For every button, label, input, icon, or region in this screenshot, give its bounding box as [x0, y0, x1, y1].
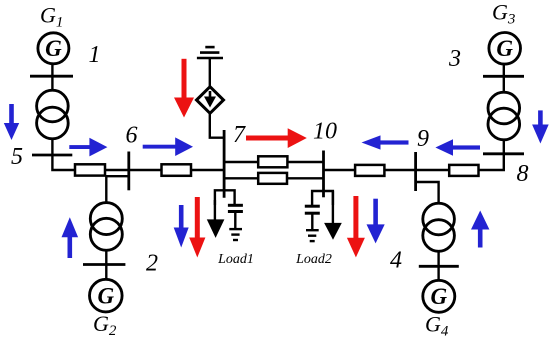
label 10 — [313, 119, 337, 145]
capacitor C1 (Load1 shunt) — [228, 205, 243, 228]
svg-text:G: G — [97, 283, 114, 308]
svg-text:3: 3 — [448, 46, 461, 72]
source U1 (diamond with down arrow) — [197, 87, 224, 114]
label 7 — [233, 122, 246, 148]
node 2 bus bar — [83, 263, 125, 266]
wire: ground to source diamond — [209, 58, 211, 88]
line box 7-10 lower — [258, 173, 287, 184]
label 9 — [417, 126, 429, 152]
svg-text:7: 7 — [233, 122, 246, 148]
line box 6-7 — [162, 164, 192, 176]
node 9 bus bar — [414, 152, 417, 191]
wire: bus6 jog to transformer T2 — [106, 176, 129, 203]
label 5 — [11, 144, 23, 170]
wire: upper branch bus7 to bus10 — [224, 161, 324, 163]
transformer T3 — [488, 92, 520, 140]
label G3 — [492, 0, 515, 28]
node 6 bus bar — [127, 152, 130, 191]
svg-text:5: 5 — [11, 144, 23, 170]
label 1 — [89, 42, 101, 68]
svg-text:G: G — [45, 36, 62, 61]
ground (below C1) — [229, 229, 242, 240]
label 6 — [126, 123, 138, 149]
svg-text:8: 8 — [517, 161, 529, 187]
node 3 bus bar — [483, 75, 524, 78]
flow arrow: blue down at Load1 — [174, 205, 189, 248]
label Load1 — [217, 252, 254, 267]
flow arrow: blue right 5 to 6 — [69, 138, 107, 157]
flow arrow: red right 7 to 10 — [246, 128, 307, 148]
node 7 bus bar — [223, 130, 226, 198]
svg-text:G: G — [430, 284, 447, 309]
line box 10-9 — [355, 165, 384, 176]
transformer T4 — [423, 203, 455, 251]
flow arrow: blue up at T4 — [471, 211, 489, 248]
node 1 bus bar — [30, 75, 73, 78]
wire: diamond jog to bus7 — [210, 113, 224, 138]
wire: T4 to G4 — [437, 251, 439, 281]
svg-text:6: 6 — [126, 123, 138, 149]
flow arrow: blue down at Load2 — [367, 199, 385, 244]
generator G1 — [38, 33, 69, 64]
svg-text:2: 2 — [146, 251, 158, 277]
ground (below C2) — [306, 230, 319, 241]
label 3 — [448, 46, 461, 72]
svg-text:Load1: Load1 — [217, 252, 254, 267]
wire: bus9 jog to transformer T4 — [416, 182, 439, 203]
flow arrow: blue down at bus 8 — [532, 110, 549, 143]
wire: lower branch bus7 to bus10 — [224, 177, 324, 179]
capacitor C2 (Load2 shunt) — [305, 206, 320, 229]
label G2 — [93, 311, 117, 339]
flow arrow: red down at source — [174, 59, 194, 118]
wire: T2 to G2 — [105, 250, 107, 279]
flow arrow: blue left 9 from 8 — [435, 139, 480, 155]
line box 9-8 — [449, 165, 478, 176]
line box 5-6 — [75, 164, 105, 175]
flow arrow: blue right 6 to 7 — [143, 137, 193, 156]
wire: G3 to transformer T3 — [503, 64, 505, 93]
label G4 — [425, 312, 449, 340]
node 10 bus bar — [322, 151, 325, 198]
label 2 — [146, 251, 158, 277]
node 8 bus bar — [483, 152, 524, 155]
load Load1 connector — [215, 190, 235, 205]
load Load1 arrow — [207, 200, 225, 238]
svg-text:G: G — [496, 36, 513, 61]
generator G2 — [90, 279, 123, 312]
line box 7-10 upper — [258, 156, 287, 167]
node 4 bus bar — [419, 265, 459, 268]
load Load2 arrow — [324, 191, 342, 240]
svg-text:9: 9 — [417, 126, 429, 152]
svg-text:4: 4 — [390, 248, 402, 274]
wire: main line bus5 to bus7 — [52, 139, 224, 170]
flow arrow: blue left 10 from 9 — [362, 135, 409, 149]
wire: main line bus10 to bus8 riser — [324, 141, 504, 171]
flow arrow: blue up at T2 — [62, 217, 79, 258]
wire: G1 to transformer T1 — [51, 64, 53, 91]
flow arrow: blue down at bus 5 — [4, 104, 19, 140]
node 5 bus bar — [32, 154, 72, 157]
label G1 — [40, 3, 63, 31]
generator G4 — [423, 280, 455, 312]
label 4 — [390, 248, 402, 274]
transformer T2 — [90, 203, 122, 251]
svg-text:1: 1 — [89, 42, 101, 68]
label 8 — [517, 161, 529, 187]
generator G3 — [489, 33, 521, 65]
label Load2 — [295, 252, 332, 267]
flow arrow: red down at Load2 — [347, 196, 365, 257]
svg-text:10: 10 — [313, 119, 337, 145]
transformer T1 — [37, 90, 69, 139]
flow arrow: red down at Load1 — [189, 197, 205, 258]
ground (inverted, above source) — [197, 47, 223, 58]
load Load2 connector — [312, 191, 333, 205]
svg-text:Load2: Load2 — [295, 252, 332, 267]
